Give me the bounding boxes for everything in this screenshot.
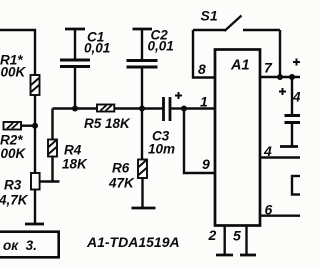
wire branch to pin 9	[184, 109, 215, 174]
op-amp U A1 box	[215, 50, 260, 226]
svg-text:6: 6	[265, 202, 273, 218]
ground pin 5	[240, 254, 256, 257]
wire pin 7 to supply	[260, 76, 300, 78]
node junction R1/R2/R3	[32, 123, 38, 129]
wire R3 wiper tap to R4	[40, 180, 60, 182]
node C1/bus	[72, 106, 78, 112]
node C2/R6/bus	[139, 106, 145, 112]
svg-text:18K: 18K	[62, 157, 88, 172]
svg-text:A1: A1	[230, 58, 250, 74]
resistor R6	[108, 109, 147, 209]
capacitor C4 polarized	[279, 77, 301, 146]
capacitor C1	[60, 29, 110, 109]
svg-text:S1: S1	[201, 8, 218, 24]
svg-text:10m: 10m	[148, 142, 175, 157]
svg-text:R4: R4	[64, 143, 82, 158]
wire C3 to node	[171, 107, 184, 109]
svg-text:ок 3.: ок 3.	[3, 238, 37, 253]
ground below R3	[25, 223, 44, 226]
wire pin 6	[260, 214, 300, 216]
svg-text:A1-TDA1519A: A1-TDA1519A	[86, 234, 180, 250]
ground below C4	[280, 145, 298, 148]
switch S1	[193, 8, 280, 32]
wire R1 to R3	[34, 95, 36, 173]
wire R2 to junction	[21, 124, 35, 126]
speaker box	[292, 176, 306, 195]
svg-text:8: 8	[198, 61, 206, 77]
potentiometer R3	[0, 173, 40, 208]
svg-text:4: 4	[292, 90, 300, 105]
wire R4 up to bus	[51, 109, 53, 140]
resistor R5	[84, 105, 131, 132]
wire top-left to R1	[0, 30, 35, 75]
resistor R4	[48, 140, 88, 172]
resistor R1	[0, 53, 40, 96]
node C4/pin7	[289, 74, 295, 80]
wire S1 right down to pin 7	[279, 30, 281, 77]
node S1/pin7	[277, 74, 283, 80]
resistor R2	[0, 122, 27, 161]
ground pin 2	[216, 254, 233, 257]
svg-text:4: 4	[263, 143, 272, 159]
pin 2 wire	[223, 226, 225, 256]
wire signal bus	[53, 107, 164, 109]
svg-text:1: 1	[200, 94, 208, 110]
svg-text:5: 5	[233, 228, 241, 244]
capacitor C3 polarized	[148, 92, 182, 157]
wire S1 left down to pin 8	[193, 30, 215, 78]
svg-text:100K: 100K	[0, 146, 27, 161]
svg-text:R3: R3	[4, 178, 22, 193]
wire pin 4	[260, 156, 300, 158]
svg-text:R5 18K: R5 18K	[84, 116, 131, 131]
supply + mark	[293, 59, 300, 66]
svg-text:4,7K: 4,7K	[0, 193, 29, 208]
node pin1/pin9 branch	[181, 106, 187, 112]
svg-text:R6: R6	[112, 161, 130, 176]
wire R4 down to R3 tap	[51, 157, 53, 183]
note box bottom-left	[0, 232, 59, 258]
wire R3 bottom	[34, 190, 36, 225]
pin 5 wire	[245, 226, 247, 256]
svg-text:47K: 47K	[108, 176, 135, 191]
svg-text:7: 7	[264, 60, 273, 76]
svg-text:2: 2	[208, 227, 217, 243]
wire to pin 1	[184, 107, 215, 109]
ground below R6	[132, 207, 156, 210]
capacitor C2	[127, 28, 174, 109]
svg-text:9: 9	[202, 156, 210, 172]
svg-text:0,01: 0,01	[84, 41, 110, 56]
svg-text:0,01: 0,01	[148, 39, 174, 54]
svg-text:100K: 100K	[0, 65, 27, 80]
